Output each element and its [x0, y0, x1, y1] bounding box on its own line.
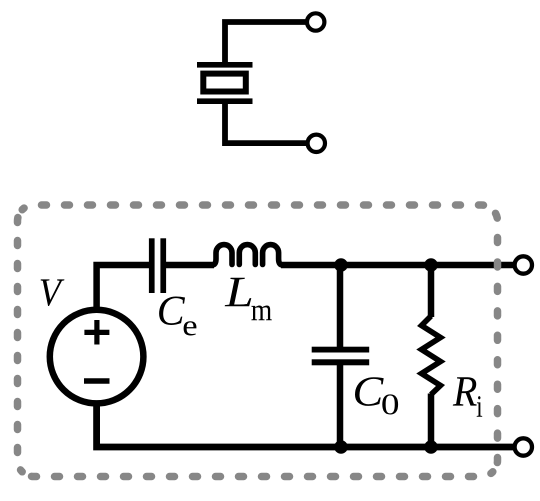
- terminal T4 (right bottom): [515, 438, 532, 455]
- capacitor C0 top plate: [312, 347, 370, 353]
- terminal T2 (crystal bottom): [308, 135, 325, 152]
- inductor Lm: [212, 245, 283, 265]
- node dot bottom Ri: [424, 440, 438, 454]
- terminal T1 (crystal top): [307, 13, 324, 30]
- wire Lm to terminal T3: [281, 262, 513, 269]
- crystal X1 bottom electrode plate: [197, 98, 253, 104]
- crystal X1 top electrode plate: [197, 62, 253, 68]
- terminal T3 (right top): [515, 256, 532, 273]
- label V: [41, 279, 65, 306]
- wire source top to Ce: [97, 265, 150, 307]
- voltage source minus sign: [84, 378, 110, 384]
- label Lm: L: [225, 278, 252, 307]
- label Ce: subscript e: [184, 321, 197, 335]
- node dot top C0: [334, 258, 348, 272]
- label C0: subscript 0: [382, 394, 398, 414]
- voltage source V1 circle: [50, 310, 144, 404]
- label Ri: R: [453, 377, 477, 405]
- dashed box right edge (drawn over wires): [493, 210, 498, 472]
- wire C0 upper stub: [337, 265, 344, 347]
- capacitor Ce left plate: [149, 238, 155, 293]
- wire Ri upper stub: [428, 265, 435, 317]
- crystal X1 top lead wire: [225, 22, 306, 64]
- resistor Ri zigzag: [422, 316, 441, 395]
- crystal X1 body: [203, 74, 246, 92]
- label Ce: C: [159, 297, 185, 326]
- wire bottom rail: [97, 406, 513, 447]
- voltage source plus sign: [84, 320, 109, 345]
- wire Ri lower stub: [428, 394, 435, 448]
- label Ri: subscript i: [477, 396, 483, 417]
- label C0: C: [355, 377, 384, 406]
- wire C0 lower stub: [337, 365, 344, 448]
- crystal X1 bottom lead wire: [225, 103, 307, 143]
- capacitor Ce right plate: [160, 238, 166, 293]
- capacitor C0 bottom plate: [312, 359, 370, 365]
- node dot top Ri: [424, 258, 438, 272]
- node dot bottom C0: [334, 440, 348, 454]
- wire Ce to Lm: [166, 262, 214, 269]
- dashed equivalent-circuit box: [18, 205, 493, 477]
- label Lm: subscript m: [251, 306, 271, 321]
